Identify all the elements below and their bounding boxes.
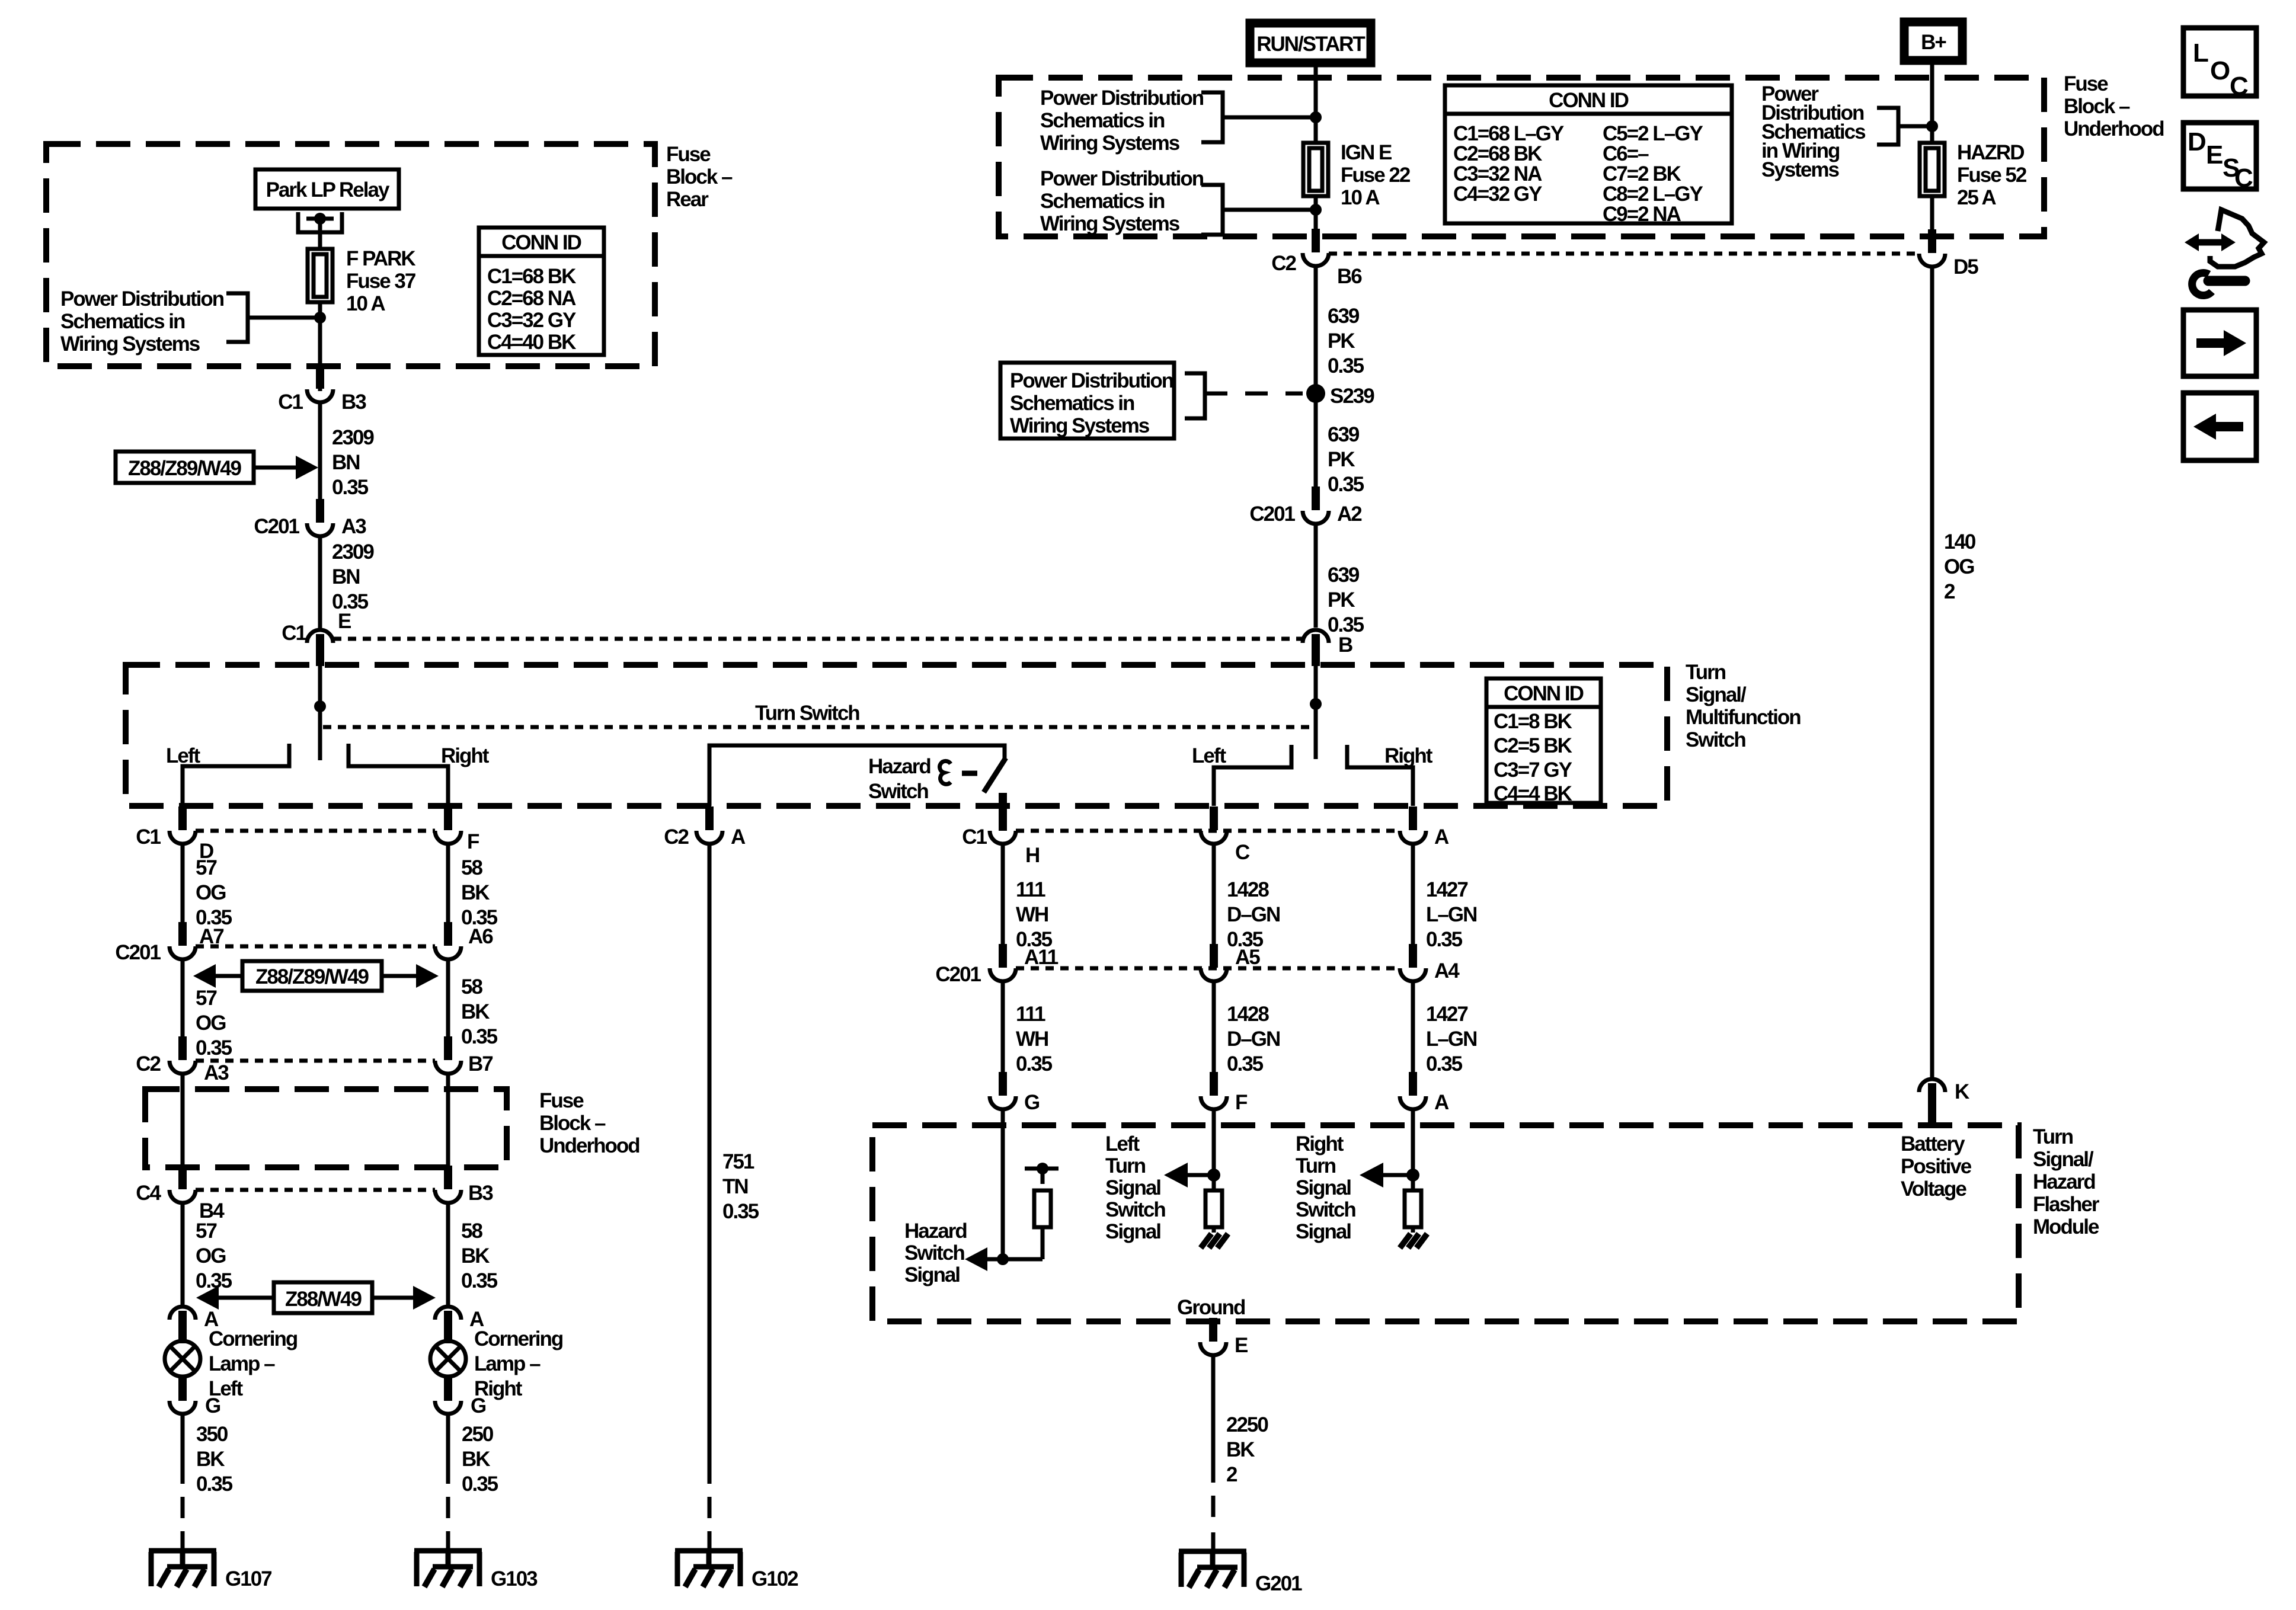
svg-text:Fuse 22: Fuse 22 bbox=[1341, 164, 1411, 187]
svg-text:Signal/: Signal/ bbox=[2033, 1148, 2094, 1171]
svg-text:0.35: 0.35 bbox=[1227, 928, 1264, 951]
svg-text:57: 57 bbox=[196, 1219, 216, 1243]
svg-text:Power Distribution: Power Distribution bbox=[1010, 369, 1173, 392]
connector B7 bbox=[435, 1036, 461, 1074]
wire E to ground bbox=[1211, 1356, 1216, 1483]
svg-text:C1: C1 bbox=[278, 391, 303, 414]
dotted row D-F bbox=[196, 829, 435, 833]
svg-text:G: G bbox=[205, 1394, 220, 1417]
svg-text:A3: A3 bbox=[204, 1061, 229, 1084]
svg-text:C4=40 BK: C4=40 BK bbox=[487, 331, 576, 354]
wire D to A7 bbox=[181, 844, 185, 923]
svg-text:PK: PK bbox=[1328, 588, 1355, 612]
svg-text:Turn: Turn bbox=[2033, 1125, 2073, 1148]
junction dot left turn bbox=[1207, 1169, 1220, 1182]
connector C4 B4 bbox=[170, 1166, 196, 1203]
hazard junction dot bbox=[997, 1253, 1009, 1265]
svg-text:Signal/: Signal/ bbox=[1686, 683, 1747, 706]
connector C2 A bbox=[696, 806, 722, 844]
svg-text:Wiring Systems: Wiring Systems bbox=[1040, 132, 1180, 155]
svg-text:0.35: 0.35 bbox=[1328, 473, 1364, 496]
resistor hazard bbox=[1034, 1190, 1051, 1227]
connector C201 A7 bbox=[170, 922, 196, 959]
svg-text:E: E bbox=[1235, 1334, 1248, 1357]
svg-text:Power Distribution: Power Distribution bbox=[1040, 167, 1204, 190]
connector C201 A3 bbox=[307, 499, 333, 536]
svg-text:2: 2 bbox=[1226, 1463, 1237, 1486]
svg-text:E: E bbox=[338, 610, 351, 633]
hazard branch wire bbox=[1001, 1110, 1005, 1259]
svg-text:Right: Right bbox=[441, 744, 490, 767]
wire A11 to G bbox=[1001, 982, 1005, 1073]
svg-text:A: A bbox=[1434, 825, 1449, 849]
svg-text:WH: WH bbox=[1016, 1028, 1048, 1051]
svg-text:Block –: Block – bbox=[666, 165, 733, 188]
wire C2 to C4 bbox=[181, 1074, 185, 1167]
svg-text:350: 350 bbox=[196, 1423, 228, 1446]
wire A7 to C2 bbox=[181, 960, 185, 1038]
svg-text:C1: C1 bbox=[282, 622, 306, 645]
table CONN ID underhood bbox=[1445, 85, 1732, 226]
table CONN ID rear bbox=[479, 228, 604, 355]
connector A6 bbox=[435, 922, 461, 959]
lamp stub to G bbox=[178, 1376, 187, 1401]
svg-text:Positive: Positive bbox=[1901, 1155, 1972, 1178]
svg-text:C3=32 GY: C3=32 GY bbox=[487, 309, 576, 332]
wire B3 to A3 bbox=[318, 403, 322, 501]
svg-text:C: C bbox=[2234, 164, 2253, 193]
svg-text:PK: PK bbox=[1328, 329, 1355, 353]
connector A lamp left bbox=[170, 1307, 196, 1343]
svg-text:G102: G102 bbox=[752, 1567, 798, 1590]
arrow right bbox=[372, 1296, 415, 1300]
svg-text:0.35: 0.35 bbox=[461, 1025, 498, 1048]
svg-text:BK: BK bbox=[1226, 1438, 1255, 1461]
svg-text:Wiring Systems: Wiring Systems bbox=[1010, 414, 1150, 437]
svg-text:PK: PK bbox=[1328, 448, 1355, 471]
wire A5 to F bbox=[1212, 982, 1216, 1073]
table CONN ID switch bbox=[1486, 678, 1601, 805]
svg-text:BK: BK bbox=[461, 881, 490, 904]
ground G103 bbox=[414, 1551, 482, 1587]
svg-text:Left: Left bbox=[1192, 744, 1227, 767]
connector F bbox=[435, 806, 461, 844]
svg-text:2: 2 bbox=[1944, 580, 1955, 603]
svg-text:G: G bbox=[1024, 1091, 1040, 1114]
flasher module dashed box bbox=[872, 1125, 2019, 1321]
svg-text:0.35: 0.35 bbox=[461, 1269, 498, 1292]
svg-text:58: 58 bbox=[461, 856, 482, 879]
svg-text:10 A: 10 A bbox=[346, 292, 385, 315]
connector B bbox=[1303, 630, 1329, 666]
svg-text:Module: Module bbox=[2033, 1215, 2099, 1238]
svg-text:Signal: Signal bbox=[904, 1263, 960, 1286]
svg-text:CONN ID: CONN ID bbox=[1504, 682, 1584, 705]
xref bracket 2 bbox=[1201, 185, 1313, 235]
svg-text:A6: A6 bbox=[468, 925, 493, 948]
svg-text:C201: C201 bbox=[1249, 502, 1295, 526]
resistor right turn bbox=[1405, 1190, 1421, 1227]
dotted row H-A bbox=[1016, 829, 1400, 833]
svg-text:BK: BK bbox=[461, 1244, 490, 1267]
connector C201 A11 bbox=[990, 944, 1016, 981]
svg-text:25 A: 25 A bbox=[1957, 186, 1996, 209]
hazard switch wire bbox=[709, 745, 1005, 806]
svg-text:G201: G201 bbox=[1255, 1572, 1302, 1595]
connector K bbox=[1919, 1079, 1945, 1115]
connector A right bbox=[1400, 806, 1426, 844]
ground G201 bbox=[1179, 1551, 1246, 1587]
junction dot bbox=[1310, 111, 1322, 123]
svg-text:1428: 1428 bbox=[1227, 878, 1269, 901]
svg-text:Hazard: Hazard bbox=[868, 755, 930, 778]
turn signal multifunction switch dashed box bbox=[126, 665, 1667, 806]
svg-text:B7: B7 bbox=[468, 1052, 493, 1076]
svg-text:0.35: 0.35 bbox=[1016, 1052, 1053, 1076]
svg-text:Block –: Block – bbox=[2064, 95, 2130, 118]
svg-text:Underhood: Underhood bbox=[2064, 117, 2164, 140]
svg-text:B6: B6 bbox=[1337, 265, 1362, 288]
svg-text:G107: G107 bbox=[225, 1567, 271, 1590]
svg-text:D–GN: D–GN bbox=[1227, 903, 1280, 926]
connector F left bbox=[1201, 1072, 1227, 1109]
svg-text:Signal: Signal bbox=[1105, 1176, 1160, 1199]
svg-text:Switch: Switch bbox=[1105, 1198, 1165, 1221]
svg-text:C4=4 BK: C4=4 BK bbox=[1494, 782, 1572, 805]
fuse HAZRD Fuse 52 bbox=[1920, 143, 1945, 196]
mini ground left bbox=[1201, 1234, 1228, 1248]
svg-text:1428: 1428 bbox=[1227, 1003, 1269, 1026]
svg-text:WH: WH bbox=[1016, 903, 1048, 926]
svg-text:OG: OG bbox=[1944, 555, 1974, 578]
svg-text:C2: C2 bbox=[136, 1052, 161, 1076]
svg-text:D–GN: D–GN bbox=[1227, 1028, 1280, 1051]
connector G left bbox=[170, 1377, 196, 1414]
svg-text:639: 639 bbox=[1328, 564, 1360, 587]
svg-text:Signal: Signal bbox=[1296, 1220, 1351, 1243]
connector A5 bbox=[1201, 944, 1227, 981]
svg-text:Switch: Switch bbox=[1686, 728, 1745, 751]
svg-text:Hazard: Hazard bbox=[2033, 1170, 2095, 1193]
svg-text:RUN/START: RUN/START bbox=[1256, 33, 1365, 56]
xref bracket 1 bbox=[1201, 92, 1313, 142]
svg-text:0.35: 0.35 bbox=[332, 476, 369, 499]
svg-text:Left: Left bbox=[1105, 1132, 1140, 1156]
wire H to A11 bbox=[1001, 844, 1005, 945]
xref bracket B+ bbox=[1877, 108, 1930, 145]
arrow right turn bbox=[1381, 1173, 1413, 1177]
svg-text:Cornering: Cornering bbox=[209, 1327, 298, 1350]
top bar with dot bbox=[1025, 1167, 1059, 1171]
connector A right2 bbox=[1400, 1072, 1426, 1109]
svg-text:BK: BK bbox=[196, 1448, 225, 1471]
svg-text:Right: Right bbox=[1384, 744, 1433, 767]
icon LOC box bbox=[2183, 28, 2256, 96]
wire D5 to K bbox=[1930, 267, 1934, 1078]
svg-text:Underhood: Underhood bbox=[539, 1134, 639, 1157]
svg-text:0.35: 0.35 bbox=[722, 1200, 759, 1223]
svg-text:Left: Left bbox=[166, 744, 201, 767]
svg-text:0.35: 0.35 bbox=[1328, 354, 1364, 377]
svg-text:Z88/W49: Z88/W49 bbox=[285, 1288, 362, 1311]
svg-text:639: 639 bbox=[1328, 423, 1360, 446]
svg-text:Cornering: Cornering bbox=[474, 1327, 563, 1350]
connector C1 B3 bbox=[307, 365, 333, 402]
connector E ground bbox=[1200, 1318, 1226, 1355]
svg-text:BN: BN bbox=[332, 451, 360, 474]
svg-text:1427: 1427 bbox=[1426, 1003, 1467, 1026]
svg-text:Multifunction: Multifunction bbox=[1686, 706, 1801, 729]
relay Park LP Relay box bbox=[255, 169, 399, 209]
svg-text:E: E bbox=[2206, 140, 2223, 169]
svg-text:0.35: 0.35 bbox=[196, 1473, 233, 1496]
junction dot right turn bbox=[1406, 1169, 1419, 1182]
svg-text:A: A bbox=[731, 825, 746, 849]
wire resistor to mini ground bbox=[1212, 1227, 1216, 1233]
svg-text:H: H bbox=[1025, 844, 1039, 867]
fuse F PARK Fuse 37 bbox=[308, 249, 332, 302]
svg-text:Signal: Signal bbox=[1105, 1220, 1160, 1243]
svg-text:C201: C201 bbox=[254, 515, 299, 538]
wire E into box bbox=[318, 664, 322, 760]
svg-text:TN: TN bbox=[722, 1175, 748, 1198]
connector B3 lower bbox=[435, 1166, 461, 1203]
svg-text:L–GN: L–GN bbox=[1426, 1028, 1476, 1051]
ground G107 bbox=[149, 1551, 216, 1587]
svg-text:Voltage: Voltage bbox=[1901, 1177, 1966, 1201]
wire resistor top bbox=[1041, 1169, 1045, 1184]
junction dot right switch bbox=[1310, 698, 1322, 710]
svg-text:0.35: 0.35 bbox=[1227, 1052, 1264, 1076]
lamp Cornering Lamp Left bbox=[165, 1341, 200, 1377]
wire C4 to A lamp bbox=[181, 1204, 185, 1306]
svg-text:C1=8 BK: C1=8 BK bbox=[1494, 710, 1572, 733]
svg-text:F: F bbox=[467, 830, 479, 853]
svg-text:57: 57 bbox=[196, 856, 216, 879]
svg-text:C4=32 GY: C4=32 GY bbox=[1453, 183, 1542, 206]
svg-text:Right: Right bbox=[1296, 1132, 1344, 1156]
wire RUN/START to fuse bbox=[1314, 67, 1318, 143]
svg-text:Fuse: Fuse bbox=[539, 1089, 584, 1112]
wire B+ down bbox=[1930, 65, 1934, 143]
connector C2 B6 bbox=[1303, 229, 1329, 266]
svg-text:B3: B3 bbox=[468, 1182, 493, 1205]
wire A down bbox=[1411, 844, 1415, 945]
svg-text:CONN ID: CONN ID bbox=[1549, 89, 1629, 112]
dotted row C4-B3 bbox=[196, 1188, 435, 1192]
xref box Power Distribution S239 bbox=[1000, 363, 1174, 438]
svg-text:Z88/Z89/W49: Z88/Z89/W49 bbox=[255, 965, 369, 988]
svg-text:Wiring Systems: Wiring Systems bbox=[60, 332, 200, 356]
connector A4 bbox=[1400, 944, 1426, 981]
svg-text:BK: BK bbox=[461, 1000, 490, 1023]
wire C2A down bbox=[708, 844, 712, 1484]
svg-text:111: 111 bbox=[1016, 1003, 1045, 1026]
svg-text:IGN E: IGN E bbox=[1341, 141, 1392, 164]
svg-text:Ground: Ground bbox=[1177, 1296, 1245, 1319]
svg-text:OG: OG bbox=[196, 881, 226, 904]
svg-text:Signal: Signal bbox=[1296, 1176, 1351, 1199]
svg-text:C1: C1 bbox=[136, 825, 161, 849]
svg-text:G103: G103 bbox=[491, 1567, 538, 1590]
svg-text:C: C bbox=[1235, 841, 1250, 864]
hazard link line bbox=[984, 1257, 1043, 1262]
dotted row A11-A4 bbox=[1016, 966, 1400, 971]
svg-text:L: L bbox=[2193, 39, 2208, 68]
hazard resistor branch bbox=[1041, 1227, 1045, 1259]
svg-text:A11: A11 bbox=[1024, 946, 1059, 969]
svg-text:CONN ID: CONN ID bbox=[501, 231, 581, 254]
arrow left bbox=[213, 974, 242, 978]
arrow left bbox=[216, 1296, 274, 1300]
svg-text:HAZRD: HAZRD bbox=[1957, 141, 2024, 164]
fuse IGN E Fuse 22 bbox=[1303, 143, 1328, 196]
svg-text:10 A: 10 A bbox=[1341, 186, 1380, 209]
svg-text:250: 250 bbox=[462, 1423, 494, 1446]
wire fuse to connector B3 bbox=[318, 302, 322, 391]
svg-text:Z88/Z89/W49: Z88/Z89/W49 bbox=[128, 457, 242, 480]
svg-text:C2=5 BK: C2=5 BK bbox=[1494, 734, 1572, 757]
svg-text:140: 140 bbox=[1944, 530, 1976, 553]
svg-text:Turn Switch: Turn Switch bbox=[755, 702, 859, 725]
connector C1 E bbox=[307, 630, 333, 666]
svg-text:B: B bbox=[1338, 633, 1352, 657]
connector C2 A3row bbox=[170, 1036, 196, 1074]
svg-text:57: 57 bbox=[196, 987, 216, 1010]
svg-text:F PARK: F PARK bbox=[346, 247, 415, 270]
svg-text:Park LP Relay: Park LP Relay bbox=[266, 178, 390, 201]
fuse block underhood small dashed box bbox=[145, 1089, 507, 1167]
svg-text:Turn: Turn bbox=[1105, 1154, 1146, 1177]
svg-text:F: F bbox=[1235, 1091, 1248, 1114]
dashed link to S239 bbox=[1205, 392, 1303, 396]
svg-text:Schematics in: Schematics in bbox=[1040, 109, 1165, 132]
relay contact bbox=[298, 212, 342, 232]
svg-text:0.35: 0.35 bbox=[462, 1473, 498, 1496]
ground G102 bbox=[675, 1551, 743, 1587]
icon schematic arrow+wrench bbox=[2185, 210, 2264, 296]
svg-text:C2: C2 bbox=[1271, 252, 1296, 275]
wire B into box bbox=[1314, 665, 1318, 759]
icon arrow right box bbox=[2183, 310, 2256, 376]
svg-text:G: G bbox=[471, 1394, 486, 1417]
svg-text:Power Distribution: Power Distribution bbox=[60, 287, 224, 311]
svg-text:BN: BN bbox=[332, 565, 360, 588]
svg-text:OG: OG bbox=[196, 1012, 226, 1035]
svg-text:C201: C201 bbox=[935, 963, 981, 986]
connector A lamp right bbox=[435, 1307, 461, 1343]
dotted turn switch link bbox=[323, 725, 1313, 729]
svg-text:C2: C2 bbox=[664, 825, 689, 849]
xref box Z88/Z89/W49 row bbox=[242, 961, 382, 991]
svg-text:Fuse: Fuse bbox=[2064, 72, 2108, 95]
wire A4 to A bbox=[1411, 982, 1415, 1073]
wire relay to fuse bbox=[318, 219, 322, 249]
svg-text:BK: BK bbox=[462, 1448, 490, 1471]
svg-text:C2=68 NA: C2=68 NA bbox=[487, 287, 576, 310]
connector D5 bbox=[1919, 229, 1945, 267]
svg-text:Power Distribution: Power Distribution bbox=[1040, 87, 1204, 110]
dotted link B6 to D5 bbox=[1329, 252, 1918, 256]
wire A6 to B7 bbox=[446, 960, 450, 1038]
svg-text:A3: A3 bbox=[341, 515, 366, 538]
arrow hazard switch signal bbox=[965, 1247, 987, 1271]
dotted row A7-A6 bbox=[196, 945, 435, 949]
wire fuse to B6 bbox=[1314, 196, 1318, 233]
mini ground right bbox=[1400, 1234, 1427, 1248]
arrow Z88 to wire bbox=[254, 466, 299, 470]
wire B3 to A lamp bbox=[446, 1204, 450, 1306]
lamp stub to G bbox=[444, 1376, 452, 1401]
junction dot B+ bbox=[1926, 120, 1938, 132]
wire fuse to D5 bbox=[1930, 196, 1934, 233]
svg-text:C3=7 GY: C3=7 GY bbox=[1494, 758, 1572, 782]
svg-text:B3: B3 bbox=[341, 391, 366, 414]
svg-text:Turn: Turn bbox=[1686, 661, 1726, 684]
svg-text:C4: C4 bbox=[136, 1182, 161, 1205]
arrow right bbox=[382, 974, 418, 978]
svg-text:639: 639 bbox=[1328, 305, 1360, 328]
xref box Z88/Z89/W49 bbox=[116, 452, 254, 483]
right turn wire bbox=[1411, 1110, 1415, 1190]
svg-text:58: 58 bbox=[461, 1219, 482, 1243]
wire G to ground bbox=[181, 1414, 185, 1484]
svg-text:Lamp –: Lamp – bbox=[209, 1352, 275, 1375]
svg-text:Schematics in: Schematics in bbox=[1040, 190, 1165, 213]
svg-text:0.35: 0.35 bbox=[196, 1036, 232, 1060]
svg-text:Wiring Systems: Wiring Systems bbox=[1040, 212, 1180, 235]
svg-text:K: K bbox=[1955, 1080, 1969, 1103]
svg-text:Rear: Rear bbox=[666, 188, 709, 211]
xref box Z88/W49 bbox=[274, 1282, 372, 1313]
svg-text:C9=2 NA: C9=2 NA bbox=[1603, 203, 1681, 226]
svg-text:C1=68 BK: C1=68 BK bbox=[487, 265, 576, 288]
svg-text:B+: B+ bbox=[1921, 31, 1946, 54]
svg-text:Schematics in: Schematics in bbox=[60, 310, 185, 333]
wire B7 to B3 bbox=[446, 1074, 450, 1167]
junction dot left switch bbox=[314, 700, 326, 712]
svg-text:Hazard: Hazard bbox=[904, 1219, 967, 1243]
svg-text:58: 58 bbox=[461, 975, 482, 998]
svg-text:O: O bbox=[2210, 56, 2230, 85]
xref bracket S239 bbox=[1185, 373, 1205, 418]
svg-text:C1: C1 bbox=[962, 825, 987, 849]
xref bracket bbox=[226, 293, 318, 342]
connector C1 H bbox=[990, 794, 1016, 844]
svg-text:Battery: Battery bbox=[1901, 1132, 1965, 1156]
hazard switch blade bbox=[984, 758, 1006, 792]
svg-text:0.35: 0.35 bbox=[1426, 1052, 1463, 1076]
hazard switch linkage symbol bbox=[940, 761, 951, 784]
svg-text:Switch: Switch bbox=[868, 780, 928, 803]
connector C bbox=[1201, 806, 1227, 844]
svg-text:1427: 1427 bbox=[1426, 878, 1467, 901]
svg-text:Lamp –: Lamp – bbox=[474, 1352, 541, 1375]
wire B6 to S239 bbox=[1314, 267, 1318, 489]
svg-text:Turn: Turn bbox=[1296, 1154, 1336, 1177]
svg-text:D: D bbox=[2188, 127, 2205, 156]
dotted link E to B bbox=[333, 637, 1303, 641]
svg-text:C: C bbox=[2230, 72, 2248, 101]
junction dot below fuse bbox=[314, 312, 326, 324]
svg-text:Schematics in: Schematics in bbox=[1010, 392, 1134, 415]
svg-text:A: A bbox=[1434, 1091, 1449, 1114]
svg-text:Switch: Switch bbox=[1296, 1198, 1355, 1221]
fuse block underhood dashed box bbox=[999, 78, 2044, 236]
svg-text:0.35: 0.35 bbox=[1426, 928, 1463, 951]
left turn switch throws bbox=[183, 744, 448, 806]
svg-text:A4: A4 bbox=[1434, 959, 1460, 982]
